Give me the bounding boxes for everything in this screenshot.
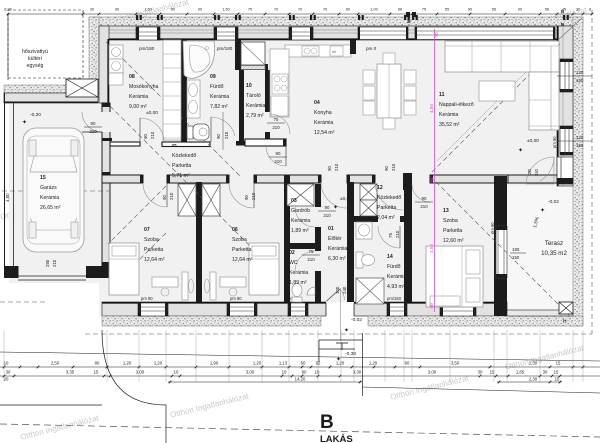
terrace corner X post: [559, 302, 573, 314]
svg-text:2,50: 2,50: [51, 361, 60, 366]
svg-text:11: 11: [439, 92, 445, 98]
svg-text:1,20: 1,20: [369, 361, 378, 366]
toilet bath 09: [187, 126, 193, 139]
svg-text:Nappali-étkező: Nappali-étkező: [439, 102, 474, 108]
door width leader bath09: [222, 112, 224, 150]
svg-text:Közlekedő: Közlekedő: [377, 195, 401, 201]
tv board room 07: [182, 272, 188, 300]
svg-text:LAKÁS: LAKÁS: [320, 434, 353, 443]
middle wall segment A (left): [102, 175, 143, 183]
svg-text:55: 55: [445, 8, 449, 12]
svg-text:03: 03: [291, 198, 297, 204]
window W5 living room glazing: [415, 27, 555, 40]
svg-text:210: 210: [420, 204, 428, 209]
svg-text:30: 30: [543, 370, 548, 375]
garage bottom wall left block: [5, 266, 19, 278]
svg-text:12,64 m²: 12,64 m²: [232, 257, 253, 263]
floor of main house: [99, 26, 573, 316]
svg-text:1,13: 1,13: [279, 361, 288, 366]
svg-text:1,90: 1,90: [210, 361, 219, 366]
svg-text:1,89 m²: 1,89 m²: [289, 280, 307, 286]
garage top wall masonry: [4, 93, 98, 103]
svg-text:Kerámia: Kerámia: [314, 120, 333, 126]
window W2 bath09 pm/180: [214, 27, 238, 40]
svg-text:15: 15: [554, 370, 559, 375]
shower bath 14: [356, 278, 384, 304]
bed room 07: [109, 243, 139, 295]
storage bottom wall (white w outline): [245, 139, 286, 146]
desk room 07: [152, 277, 178, 287]
svg-text:✦: ✦: [22, 119, 27, 126]
garage left wall: [4, 93, 6, 278]
left dimension line: [7, 14, 9, 80]
floor of garage: [9, 93, 102, 283]
svg-text:Mosókonyha: Mosókonyha: [129, 84, 159, 90]
exterior left wall insulation: [89, 17, 99, 93]
svg-text:WC: WC: [289, 260, 298, 266]
svg-text:20: 20: [4, 377, 9, 382]
garage door lines: [18, 275, 86, 277]
svg-text:10: 10: [4, 361, 9, 366]
svg-text:75: 75: [388, 233, 393, 238]
room 13 east wall: [494, 176, 507, 316]
roof dashed short B room07: [112, 233, 166, 287]
window W6 living right upper: [560, 59, 573, 92]
svg-text:210: 210: [274, 159, 282, 164]
terrace door arcs: [526, 157, 554, 184]
svg-text:pm/180: pm/180: [139, 46, 155, 51]
svg-text:4,93 m²: 4,93 m²: [387, 284, 405, 290]
svg-text:Kerámia: Kerámia: [289, 270, 308, 276]
sofa L-shaped living room: [445, 41, 559, 72]
window room 06: [227, 303, 257, 316]
exterior top wall insulation: [89, 17, 583, 26]
window W7 living right lower: [560, 126, 573, 155]
svg-text:Közlekedő: Közlekedő: [172, 153, 196, 159]
kitchen top counter: [285, 45, 351, 57]
svg-text:3,50: 3,50: [451, 361, 460, 366]
svg-text:70: 70: [298, 8, 302, 12]
svg-text:58: 58: [545, 8, 549, 12]
walkway kerb line right: [363, 387, 600, 393]
svg-text:12,64 m²: 12,64 m²: [144, 257, 165, 263]
wardrobe X room 06: [202, 184, 220, 216]
svg-text:Kerámia: Kerámia: [291, 218, 310, 224]
entrance door leaf: [327, 289, 341, 301]
wall between bath 09 and shower/storage: [235, 40, 241, 70]
coffee table: [479, 81, 515, 101]
svg-text:04: 04: [314, 100, 320, 106]
entrance center line: [340, 288, 342, 340]
svg-text:75: 75: [422, 8, 426, 12]
svg-text:90: 90: [325, 205, 330, 210]
storage 10 left wall bottom cap: [236, 141, 245, 146]
door arc wc: [295, 251, 315, 271]
svg-text:Tároló: Tároló: [246, 93, 261, 99]
svg-text:90: 90: [384, 166, 389, 171]
svg-text:90: 90: [143, 134, 148, 139]
window room 13: [440, 303, 476, 316]
svg-text:Kerámia: Kerámia: [387, 274, 406, 280]
wardrobe X gardrob 03: [287, 184, 314, 206]
driveway arc: [102, 330, 166, 443]
svg-text:210: 210: [391, 163, 396, 171]
svg-text:120: 120: [576, 135, 584, 140]
exterior bottom wall masonry right part: [354, 302, 507, 316]
svg-text:Előtér: Előtér: [328, 236, 342, 242]
svg-text:-0,38: -0,38: [345, 351, 356, 357]
svg-text:±0,00: ±0,00: [146, 110, 158, 116]
garage top wall insulation: [4, 85, 66, 93]
roof hip dashed diagonal bottom-right: [430, 176, 570, 316]
desk room 06: [220, 277, 246, 287]
svg-text:210: 210: [272, 125, 280, 130]
svg-text:2,04 m²: 2,04 m²: [377, 215, 395, 221]
kitchen left counter with stove: [270, 49, 289, 117]
svg-text:75: 75: [274, 117, 279, 122]
svg-text:60: 60: [405, 361, 410, 366]
svg-text:Parketta: Parketta: [232, 247, 251, 253]
svg-text:90: 90: [216, 134, 221, 139]
svg-text:30: 30: [478, 370, 483, 375]
svg-text:±0,00: ±0,00: [527, 138, 539, 144]
terrace floor: [507, 186, 573, 314]
svg-text:✦: ✦: [540, 207, 545, 214]
svg-text:hőszivattyú: hőszivattyú: [22, 49, 48, 55]
svg-text:1,50: 1,50: [222, 8, 229, 12]
svg-text:12,54 m²: 12,54 m²: [314, 130, 335, 136]
svg-text:6,30 m²: 6,30 m²: [328, 256, 346, 262]
tall cabinet in laundry: [163, 40, 181, 140]
svg-text:7,82 m²: 7,82 m²: [210, 104, 228, 110]
svg-text:240: 240: [342, 286, 347, 294]
svg-text:180: 180: [527, 168, 532, 176]
svg-text:90: 90: [115, 8, 119, 12]
svg-text:-0,02: -0,02: [548, 199, 559, 205]
exterior right wall insulation: [573, 17, 583, 326]
svg-text:Fürdő: Fürdő: [210, 84, 224, 90]
svg-text:Kerámia: Kerámia: [40, 195, 59, 201]
wall between laundry 08 and bath 09: [181, 40, 187, 145]
storage 10 right wall lower part: [265, 132, 270, 142]
svg-text:2,30: 2,30: [529, 361, 538, 366]
svg-text:kültéri: kültéri: [28, 56, 42, 62]
door arc kitchen-hall: [266, 146, 286, 166]
dining table: [377, 64, 401, 118]
svg-text:56: 56: [492, 8, 496, 12]
bottom kerb line: [0, 352, 600, 361]
storage 10 right wall: [265, 70, 270, 112]
svg-text:10: 10: [282, 370, 287, 375]
svg-text:90: 90: [302, 370, 307, 375]
middle wall segment F (to right wall): [508, 175, 557, 183]
svg-text:10: 10: [315, 370, 320, 375]
roof hip dashed diagonal top-left: [106, 42, 240, 176]
svg-text:12,60 m²: 12,60 m²: [443, 238, 464, 244]
toilet wc 02: [292, 284, 302, 297]
svg-text:Kerámia: Kerámia: [210, 94, 229, 100]
svg-text:35,52 m²: 35,52 m²: [439, 122, 460, 128]
svg-text:13: 13: [443, 208, 449, 214]
roof hip dashed diagonal top-right: [430, 44, 560, 174]
svg-text:Szoba: Szoba: [232, 237, 247, 243]
dimension extension lines: [3, 330, 5, 382]
svg-text:±0,00: ±0,00: [340, 196, 352, 202]
svg-text:15: 15: [40, 175, 46, 181]
svg-text:Szoba: Szoba: [443, 218, 458, 224]
svg-text:150: 150: [576, 143, 584, 148]
svg-text:14: 14: [387, 254, 393, 260]
svg-text:90: 90: [429, 177, 434, 183]
svg-text:90: 90: [518, 8, 522, 12]
door arc corridor 12: [375, 182, 403, 210]
toilet bath 14: [356, 252, 363, 268]
garage right wall / house west wall: [102, 103, 110, 266]
svg-text:1,20: 1,20: [154, 361, 163, 366]
svg-text:pm/180: pm/180: [217, 46, 233, 51]
svg-text:100: 100: [335, 286, 340, 294]
svg-text:6,90: 6,90: [4, 8, 11, 12]
svg-text:70: 70: [274, 8, 278, 12]
pink section dimension line: [434, 29, 436, 312]
washbasin bath 14: [356, 222, 372, 239]
wall between entry 01 and bath 14: [347, 182, 354, 302]
top dimension line: [8, 13, 592, 15]
corner X panel at garage/house junction: [66, 79, 98, 97]
svg-text:Szoba: Szoba: [144, 237, 159, 243]
door arc laundry: [140, 118, 164, 142]
svg-text:12: 12: [377, 185, 383, 191]
exterior left wall masonry: [99, 26, 109, 103]
svg-text:210: 210: [334, 163, 339, 171]
bed room 06: [249, 243, 279, 295]
svg-text:05: 05: [172, 143, 177, 148]
svg-text:3,00: 3,00: [246, 370, 255, 375]
svg-text:3,00: 3,00: [428, 370, 437, 375]
svg-text:Parketta: Parketta: [377, 205, 396, 211]
svg-text:210: 210: [89, 129, 97, 134]
door arc room 07: [143, 183, 167, 207]
svg-text:90: 90: [327, 166, 332, 171]
car in garage: [23, 128, 84, 252]
svg-text:07: 07: [144, 227, 150, 233]
svg-text:210: 210: [52, 259, 57, 267]
svg-text:10: 10: [174, 370, 179, 375]
svg-text:250: 250: [45, 259, 50, 267]
svg-text:210: 210: [224, 131, 229, 139]
svg-text:Gardrób: Gardrób: [291, 208, 310, 214]
svg-text:92: 92: [316, 361, 321, 366]
svg-text:Konyha: Konyha: [314, 110, 332, 116]
wardrobe X corridor 12: [360, 184, 377, 200]
svg-text:30: 30: [6, 370, 11, 375]
terrace bottom edge: [507, 310, 573, 316]
svg-text:90: 90: [244, 195, 249, 200]
garage bottom wall right block: [86, 266, 109, 278]
svg-text:2,30: 2,30: [529, 377, 538, 382]
svg-text:pm 90: pm 90: [490, 222, 495, 234]
svg-text:90: 90: [429, 302, 434, 308]
wall between bath 14 and room 13: [404, 184, 412, 302]
svg-text:210: 210: [395, 230, 400, 238]
roof hip solid diagonal top-right: [437, 41, 557, 161]
bed room 13: [426, 246, 483, 307]
door arc storage 10: [270, 114, 290, 134]
svg-text:pm 90: pm 90: [141, 296, 153, 301]
svg-text:egység: egység: [27, 63, 44, 69]
svg-text:✦: ✦: [333, 204, 338, 211]
svg-text:60: 60: [301, 361, 306, 366]
svg-text:2,79 m²: 2,79 m²: [246, 113, 264, 119]
svg-text:1,50: 1,50: [144, 8, 151, 12]
svg-text:Parketta: Parketta: [172, 163, 191, 169]
door arc to entry corridor: [321, 182, 347, 208]
wall between rooms 07 and 06: [196, 182, 202, 302]
svg-text:pm 90: pm 90: [552, 136, 557, 148]
svg-text:pm 0: pm 0: [366, 46, 377, 51]
svg-text:02: 02: [289, 250, 295, 256]
bottom dimension row 1: [0, 366, 600, 368]
svg-text:-0,20: -0,20: [30, 112, 41, 118]
shower with diagonal: [241, 42, 265, 65]
wall under laundry 08 (y139) left stub: [110, 142, 140, 146]
svg-text:4,50: 4,50: [5, 193, 10, 202]
svg-text:60: 60: [346, 8, 350, 12]
middle wall segment D: [347, 175, 375, 183]
svg-text:90: 90: [91, 121, 96, 126]
corner bathtub bath 09: [183, 41, 215, 78]
svg-text:06: 06: [232, 227, 238, 233]
svg-text:30: 30: [576, 8, 580, 12]
svg-text:Kerámia: Kerámia: [129, 94, 148, 100]
svg-text:✦: ✦: [336, 356, 341, 363]
svg-text:15: 15: [556, 361, 561, 366]
svg-text:26,65 m²: 26,65 m²: [40, 205, 61, 211]
window room 07: [138, 303, 168, 316]
section marker top: [406, 12, 410, 17]
svg-text:14,20: 14,20: [295, 377, 306, 382]
svg-text:240: 240: [534, 168, 539, 176]
svg-text:Garázs: Garázs: [40, 185, 57, 191]
wall right of room 06: [284, 175, 290, 302]
svg-text:B: B: [320, 412, 334, 433]
exterior bottom wall masonry left part: [102, 302, 326, 316]
middle wall segment B: [167, 175, 229, 183]
svg-text:✦: ✦: [518, 147, 523, 154]
dresser room 13: [430, 296, 460, 306]
twin washbasins bath 09: [187, 80, 200, 118]
svg-text:210: 210: [307, 257, 315, 262]
svg-text:30: 30: [90, 8, 94, 12]
svg-text:15: 15: [490, 370, 495, 375]
svg-text:1,20: 1,20: [253, 361, 262, 366]
overhang dashed right: [591, 10, 593, 334]
tv board room 06: [210, 272, 216, 300]
wall under shower: [235, 64, 268, 70]
svg-text:4,50: 4,50: [429, 104, 434, 113]
svg-text:H: H: [563, 319, 567, 325]
svg-text:210: 210: [251, 192, 256, 200]
svg-text:210: 210: [150, 131, 155, 139]
wall stub left of dining door: [350, 40, 356, 54]
door arc room 13: [412, 184, 430, 202]
svg-text:75: 75: [248, 8, 252, 12]
window jamb marks on insulation band: [136, 15, 138, 20]
svg-text:Terasz: Terasz: [545, 240, 563, 247]
terrace door: [557, 157, 573, 184]
entrance door opening: [326, 302, 354, 316]
svg-text:150: 150: [512, 255, 520, 260]
svg-text:1,89 m²: 1,89 m²: [291, 228, 309, 234]
svg-text:✦: ✦: [344, 327, 349, 334]
svg-text:8: 8: [589, 8, 591, 12]
wall between corridor 12 and bath 14: [354, 216, 404, 222]
middle wall segment C: [254, 175, 321, 183]
middle wall segment E (room13 top): [430, 175, 508, 183]
svg-text:90: 90: [162, 195, 167, 200]
washing machines in laundry 08: [109, 45, 123, 59]
bottom dimension row 3: [168, 381, 362, 383]
svg-text:90: 90: [434, 32, 439, 37]
storage 10 left wall: [239, 70, 244, 141]
window W1 laundry pm/180: [136, 27, 160, 40]
roof dashed short A room07: [108, 186, 166, 244]
svg-text:1,20: 1,20: [123, 361, 132, 366]
shower sill hatched: [241, 66, 265, 70]
svg-text:pm 90: pm 90: [230, 296, 242, 301]
wall between gardrob 03 and wc 02: [284, 243, 321, 249]
svg-text:3,35: 3,35: [66, 370, 75, 375]
svg-text:10,35 m2: 10,35 m2: [541, 250, 567, 257]
svg-text:80: 80: [95, 361, 100, 366]
svg-text:90: 90: [468, 8, 472, 12]
window wc: [288, 303, 308, 316]
svg-text:90: 90: [422, 196, 427, 201]
svg-text:Kerámia: Kerámia: [439, 112, 458, 118]
exterior right wall masonry (living room): [557, 26, 573, 186]
svg-text:4,50: 4,50: [429, 244, 434, 253]
svg-text:210: 210: [323, 213, 331, 218]
svg-text:180: 180: [512, 247, 520, 252]
svg-text:15: 15: [555, 377, 560, 382]
svg-text:01: 01: [328, 226, 334, 232]
long dashed property line: [0, 424, 600, 437]
svg-text:1,00: 1,00: [370, 8, 377, 12]
door arc room 06: [229, 183, 254, 208]
svg-text:09: 09: [210, 74, 216, 80]
bottom dimension row 2: [0, 375, 600, 377]
wall right of wardrobe/WC: [315, 184, 321, 302]
entrance walkway: [318, 340, 320, 362]
garage ridge dashed: [2, 190, 109, 192]
svg-text:Kerámia: Kerámia: [328, 246, 347, 252]
window W3 kitchen pm/180: [289, 27, 313, 40]
roof hip dashed diagonal from garage junction: [110, 106, 262, 258]
overhang dashed bottom: [85, 333, 592, 335]
svg-text:90: 90: [276, 151, 281, 156]
heat pump outdoor unit dashed box: [8, 10, 83, 78]
exterior top wall masonry: [99, 26, 573, 40]
svg-text:10: 10: [246, 83, 252, 89]
svg-text:08: 08: [129, 74, 135, 80]
entrance T mark: [336, 342, 348, 344]
svg-text:9,00 m²: 9,00 m²: [129, 104, 147, 110]
exterior bottom wall insulation left part: [102, 316, 321, 326]
exterior bottom wall insulation right part: [368, 316, 583, 326]
svg-text:120: 120: [576, 70, 584, 75]
wardrobe X room 07: [178, 184, 196, 216]
svg-text:Parketta: Parketta: [443, 228, 462, 234]
